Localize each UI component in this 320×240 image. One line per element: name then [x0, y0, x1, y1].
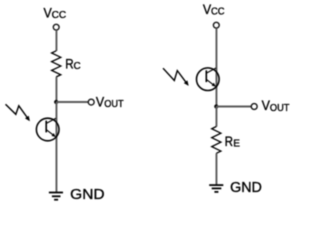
label RE	[225, 133, 241, 150]
label RC	[65, 55, 81, 72]
resistor RE	[212, 127, 221, 154]
wire VCC terminal to resistor RC	[55, 30, 57, 51]
svg-text:E: E	[233, 138, 240, 149]
wire node to VOUT terminal (right)	[216, 106, 251, 108]
terminal VOUT (left)	[88, 99, 94, 105]
svg-text:GND: GND	[230, 179, 262, 196]
junction node (left output)	[54, 100, 58, 104]
svg-text:OUT: OUT	[270, 103, 290, 114]
svg-text:R: R	[65, 55, 73, 71]
svg-text:GND: GND	[70, 186, 105, 203]
svg-text:OUT: OUT	[104, 99, 124, 110]
wire node through phototransistor to ground (left)	[55, 102, 57, 193]
terminal VCC (right)	[213, 22, 219, 28]
phototransistor Q2 base bar	[205, 70, 207, 82]
junction node (right output)	[214, 104, 218, 108]
svg-text:CC: CC	[52, 10, 67, 21]
wire RE to ground (right)	[215, 153, 217, 185]
resistor RC	[52, 51, 61, 77]
phototransistor Q2 collector stroke	[206, 68, 216, 73]
phototransistor Q1 circle	[36, 118, 59, 141]
wire RC to output node (left)	[55, 77, 57, 102]
wire node to resistor RE (right)	[215, 107, 217, 127]
phototransistor Q1 collector stroke	[46, 118, 56, 123]
label VOUT (right)	[262, 97, 290, 114]
light arrow into Q1 (left)	[6, 104, 30, 121]
light arrow into Q2 (right)	[163, 68, 189, 86]
terminal VOUT (right)	[251, 104, 257, 110]
svg-text:CC: CC	[211, 7, 225, 18]
ground symbol (left)	[49, 193, 63, 200]
phototransistor Q2 circle	[197, 68, 220, 91]
label VCC (right)	[203, 1, 225, 18]
phototransistor Q2 emitter stroke with arrowhead	[206, 79, 216, 86]
phototransistor Q1 base bar	[45, 121, 47, 133]
label VCC (left)	[44, 4, 67, 21]
wire node to VOUT terminal (left)	[56, 101, 88, 103]
wire VCC terminal through phototransistor to output node (right)	[215, 28, 217, 106]
label VOUT (left)	[96, 93, 124, 110]
svg-text:R: R	[225, 133, 233, 149]
phototransistor Q1 emitter stroke with arrowhead	[46, 130, 56, 137]
svg-text:C: C	[74, 61, 81, 72]
ground symbol (right)	[209, 185, 223, 192]
terminal VCC (left)	[53, 24, 59, 30]
